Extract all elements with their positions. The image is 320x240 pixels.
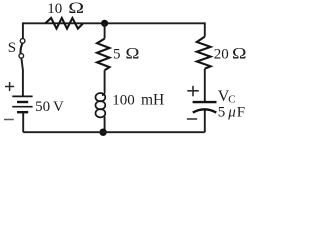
svg-text:5: 5 — [113, 47, 121, 63]
svg-text:Ω: Ω — [232, 44, 247, 62]
battery minus sign — [4, 119, 14, 121]
svg-text:S: S — [8, 40, 16, 56]
wire bottom horizontal — [23, 131, 205, 133]
svg-text:50V: 50V — [35, 99, 64, 115]
wire capacitor to bottom corner — [204, 110, 206, 132]
wire node to 5 ohm resistor — [104, 23, 106, 38]
node junction bottom — [99, 129, 106, 136]
wire 5 ohm to inductor — [104, 70, 106, 91]
wire right vertical upper — [204, 22, 206, 36]
svg-text:20: 20 — [214, 46, 229, 62]
inductor L 100 mH — [96, 92, 106, 121]
capacitor plus sign — [187, 86, 199, 97]
svg-text:5μF: 5μF — [218, 104, 245, 120]
switch S — [19, 39, 25, 59]
svg-text:100mH: 100mH — [112, 92, 164, 109]
node junction top — [101, 20, 108, 27]
resistor R 20 ohm — [197, 37, 211, 69]
resistor R 5 ohm — [97, 39, 110, 71]
wire top horizontal — [23, 22, 205, 24]
wire 20 ohm to capacitor — [204, 69, 206, 101]
wire battery to bottom corner — [22, 112, 24, 132]
svg-text:Ω: Ω — [68, 0, 84, 17]
capacitor C top plate — [193, 101, 217, 103]
battery 50 V — [12, 96, 32, 112]
svg-text:10: 10 — [47, 1, 62, 17]
wire left vertical upper (corner to switch) — [22, 22, 24, 38]
capacitor C bottom curved plate — [193, 109, 217, 112]
capacitor minus sign — [187, 118, 197, 120]
wire switch to battery — [21, 58, 23, 96]
wire inductor to bottom node — [104, 118, 106, 132]
svg-text:Ω: Ω — [125, 45, 139, 62]
battery plus sign — [5, 82, 14, 91]
resistor R 10 ohm — [45, 18, 83, 29]
